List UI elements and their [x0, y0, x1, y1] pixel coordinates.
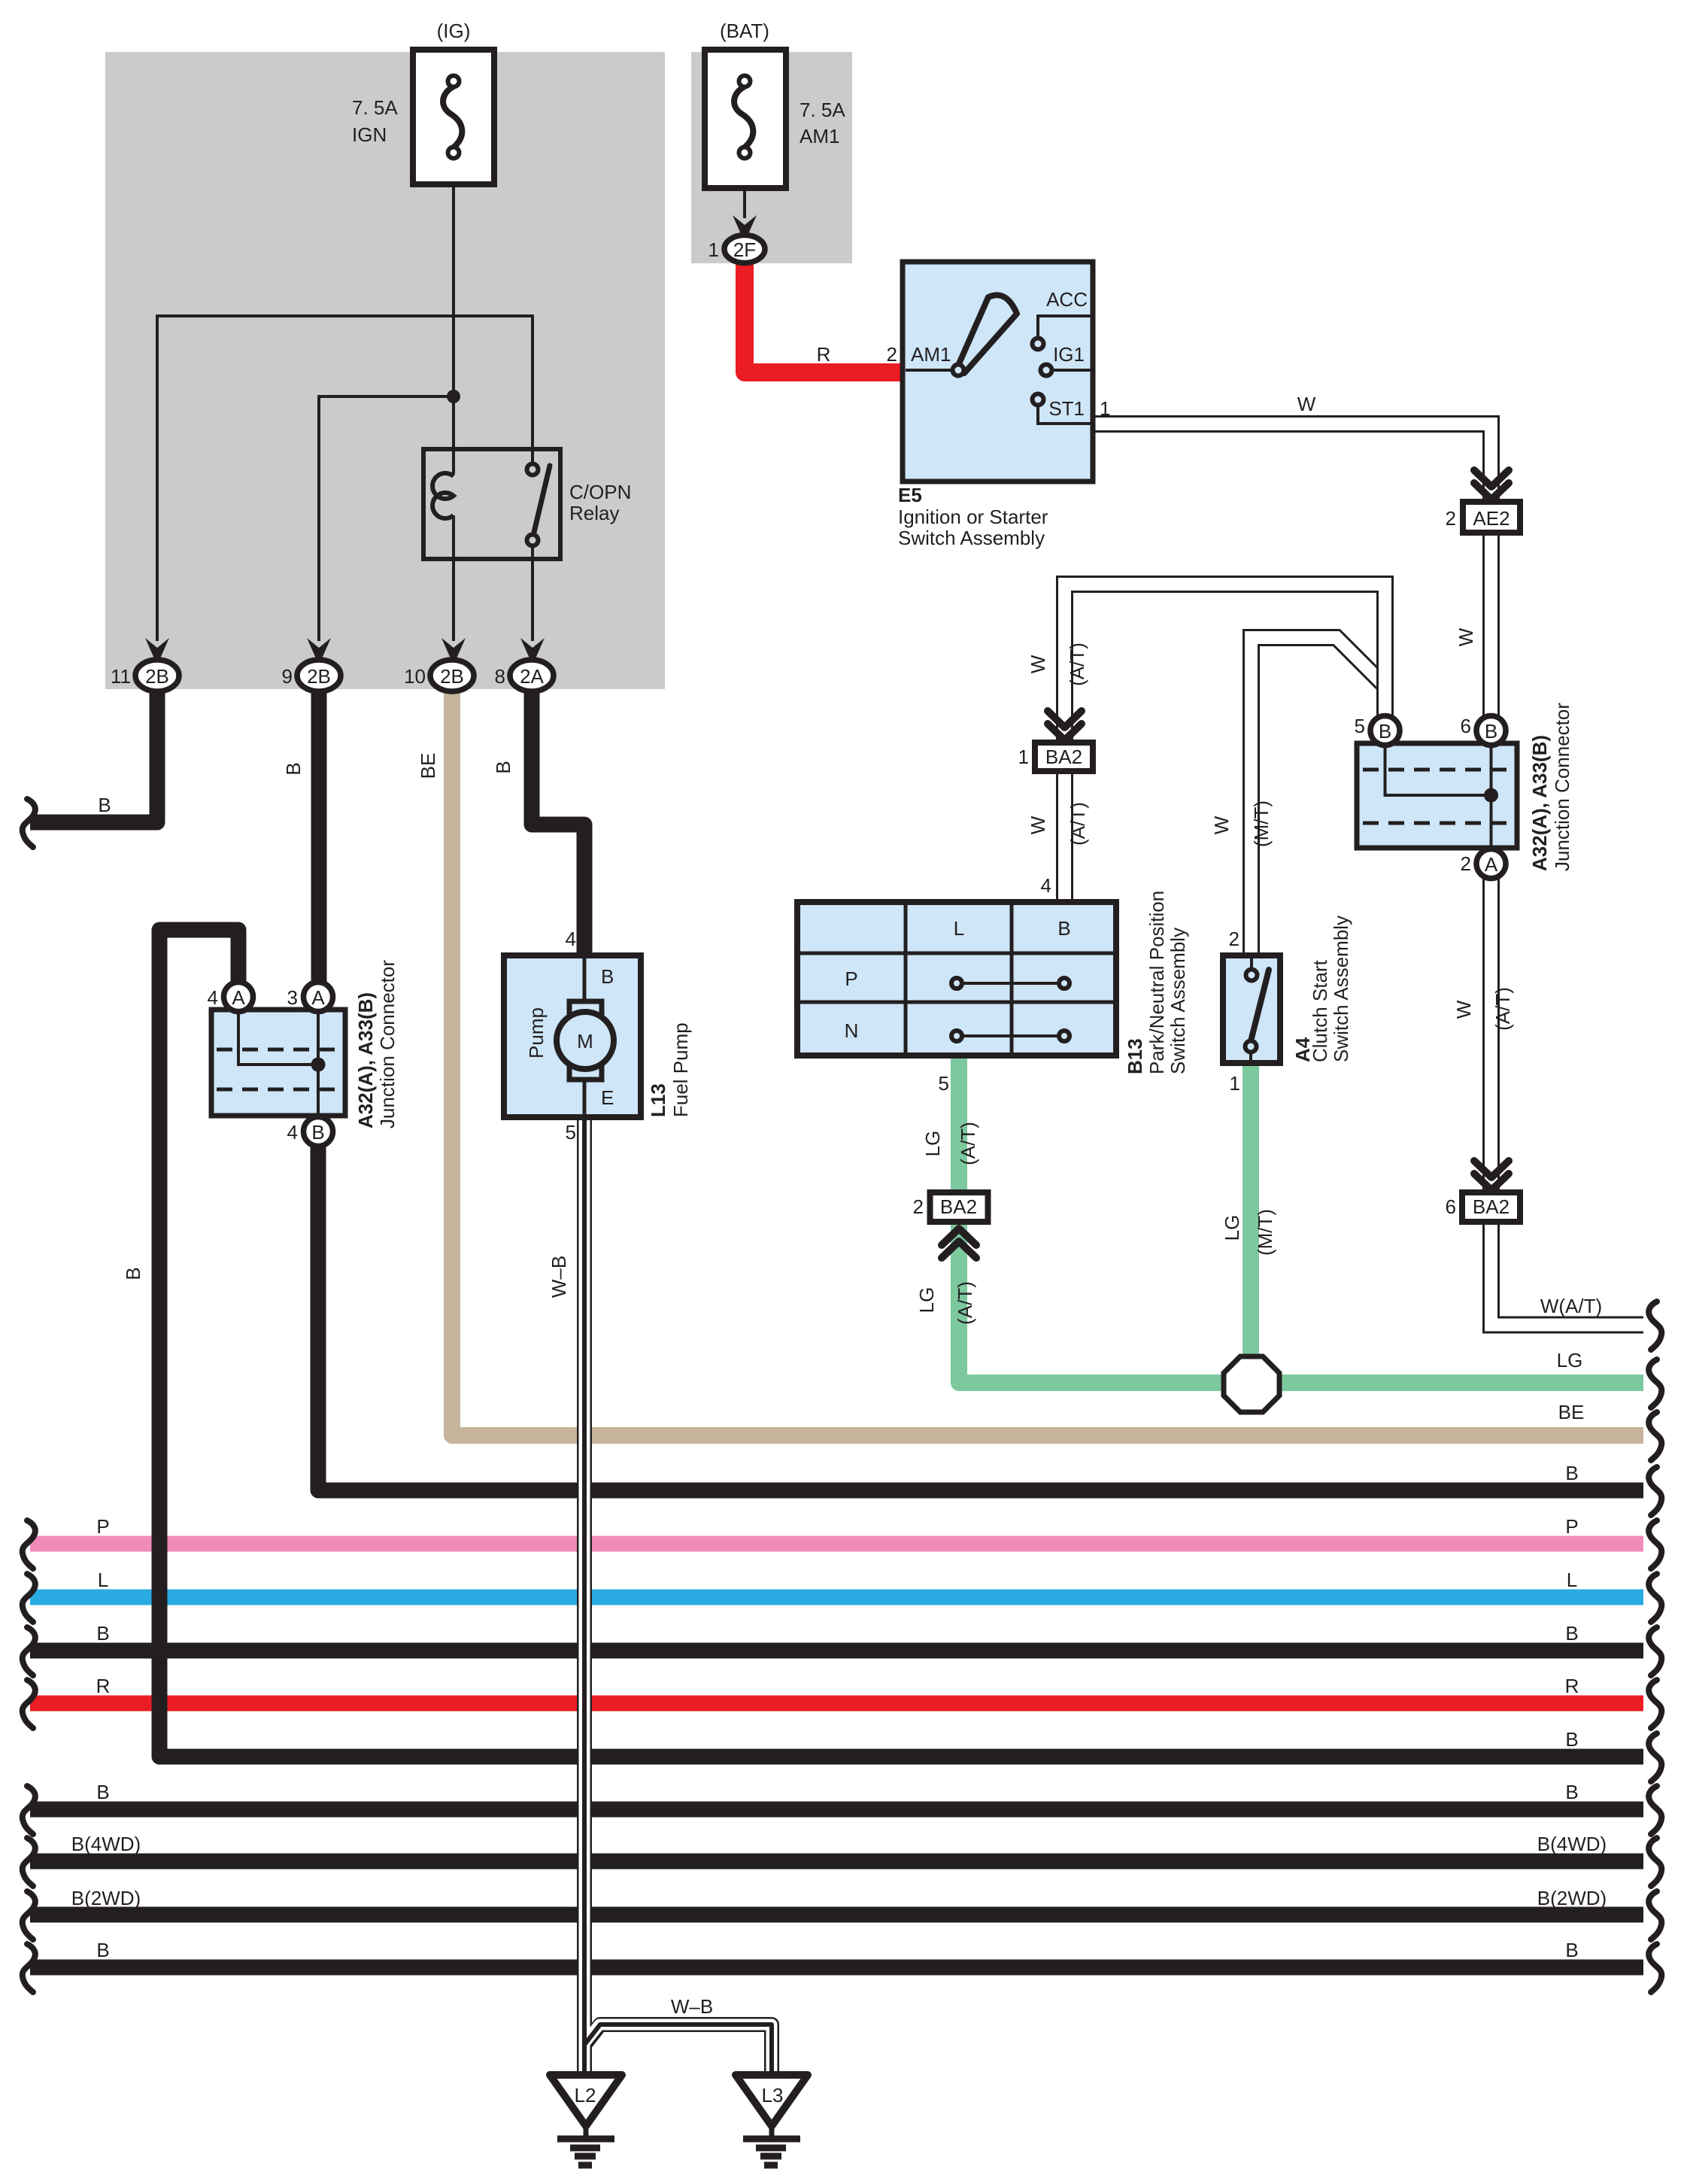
svg-text:W(A/T): W(A/T): [1540, 1295, 1602, 1317]
junction (left) internal through wire: [317, 1011, 320, 1114]
svg-text:1: 1: [1230, 1072, 1240, 1095]
connector oval 2A pin 8: [510, 660, 554, 691]
svg-text:2B: 2B: [440, 665, 464, 688]
svg-text:B: B: [96, 1781, 109, 1803]
park/neutral switch B13 box: [797, 902, 1116, 1056]
wire: thick black B from 2A pin 8 with jog to fuel pump pin 4: [532, 686, 584, 958]
junction connector A32/A33 (left) box: [211, 1010, 345, 1116]
wire: thick black B from 2B pin 9 down to junction connector circle A3: [311, 686, 327, 987]
svg-text:BA2: BA2: [1473, 1195, 1510, 1218]
wire: white W from ignition switch ST1 to AE2: [1091, 424, 1491, 504]
junction (left) internal wire A4 branch: [238, 1011, 318, 1065]
chevron arrow into BA2-2 (pointing up): [942, 1229, 976, 1258]
harness curl left, B(4WD) row: [23, 1838, 35, 1886]
svg-text:IGN: IGN: [352, 123, 387, 146]
A4 internal leads: [1251, 958, 1252, 1061]
harness curl right, B row 2194: [1649, 1627, 1661, 1675]
junction (right) dashed bus lines: [1363, 770, 1512, 823]
relay switch contacts: [527, 464, 539, 475]
E5 AM1 pivot contact: [953, 365, 964, 376]
svg-text:2: 2: [913, 1195, 924, 1218]
octagon junction joint: [1224, 1356, 1279, 1412]
wire: vertical drop to connector 2B pin 11: [156, 314, 159, 641]
svg-text:B(4WD): B(4WD): [1537, 1833, 1607, 1855]
clutch start switch A4 box: [1223, 955, 1280, 1063]
svg-text:(A/T): (A/T): [957, 1122, 979, 1165]
junction (right) internal node dot: [1484, 788, 1498, 803]
wire: thick black B from junction circle B4 down and right (row 4): [318, 1142, 1643, 1490]
svg-text:BE: BE: [417, 753, 439, 779]
svg-text:W: W: [1027, 816, 1049, 834]
connector oval 2F pin 1: [724, 235, 765, 263]
svg-text:2: 2: [1446, 507, 1456, 530]
junction (left) dashed bus lines: [217, 1049, 340, 1089]
B13 N-row contact pair: [962, 1034, 1059, 1037]
svg-text:R: R: [1565, 1675, 1579, 1697]
svg-text:B(2WD): B(2WD): [1537, 1887, 1607, 1909]
wire: horizontal branch y420 from x209 to relay switch x708: [157, 314, 533, 317]
E5 IG1 contact and lead: [1051, 369, 1091, 372]
svg-text:B: B: [1485, 720, 1497, 743]
svg-text:B: B: [1565, 1622, 1578, 1645]
svg-text:B(2WD): B(2WD): [71, 1887, 141, 1909]
svg-text:A: A: [232, 986, 245, 1009]
wire: relay switch output down to connector 2A pin 8: [531, 544, 534, 641]
wire: thick BE (beige) from 2B pin 10 down and right to edge: [452, 686, 1643, 1435]
svg-text:7. 5A: 7. 5A: [800, 99, 845, 121]
chevron arrow into BA2-6: [1474, 1161, 1509, 1190]
arrow into 2B pin 11: [145, 638, 169, 665]
svg-text:P: P: [96, 1515, 109, 1538]
svg-text:L: L: [954, 917, 964, 940]
svg-text:Junction Connector: Junction Connector: [1551, 703, 1573, 871]
L13 internal leads: [583, 958, 587, 1114]
L13 motor circle: [557, 1012, 614, 1069]
connector BA2-2 box: [930, 1192, 988, 1222]
svg-text:W: W: [1452, 1000, 1475, 1019]
junction (right) internal through wire: [1490, 745, 1493, 846]
svg-text:4: 4: [287, 1121, 298, 1144]
node: junction dot on IG feed: [447, 390, 460, 403]
svg-text:B: B: [96, 1622, 109, 1645]
wire: thick green LG from BA2-2 down and right to edge: [959, 1219, 1643, 1383]
harness curl right, B bottom row: [1649, 1944, 1661, 1992]
relay C/OPN box: [423, 449, 560, 559]
harness curl right, LG row: [1649, 1359, 1661, 1408]
wire: horizontal branch y527 from x424 to junction dot: [319, 395, 454, 398]
svg-text:L13: L13: [647, 1083, 669, 1117]
harness curl left, B(2WD) row: [23, 1891, 35, 1939]
gray panel: battery fuse block (right): [691, 52, 852, 263]
svg-text:Switch Assembly: Switch Assembly: [898, 527, 1045, 549]
fuse 7.5A IGN box: [413, 50, 494, 184]
svg-text:1: 1: [1100, 397, 1110, 420]
svg-text:5: 5: [939, 1072, 949, 1095]
wire: white W (A/T) from BA2-1 up over and down to junction circle B5: [1065, 585, 1385, 746]
svg-text:4: 4: [208, 986, 218, 1009]
E5 AM1 feed line: [906, 369, 952, 372]
wire: white W (M/T) from clutch switch A4 pin 2 merging to junction circle B5: [1252, 638, 1383, 959]
ignition switch E5 box: [903, 262, 1093, 481]
svg-text:P: P: [845, 967, 857, 990]
svg-text:(A/T): (A/T): [1067, 802, 1089, 846]
svg-text:B: B: [98, 794, 111, 816]
svg-text:B: B: [1379, 720, 1391, 743]
svg-text:R: R: [817, 343, 831, 366]
svg-text:10: 10: [404, 665, 426, 688]
relay switch lever: [533, 466, 550, 539]
svg-text:(IG): (IG): [437, 20, 471, 42]
harness curl right, R row: [1649, 1680, 1661, 1728]
junction (right) internal wire B5 branch: [1385, 745, 1491, 795]
svg-text:2: 2: [1229, 928, 1239, 950]
svg-text:LG: LG: [1221, 1215, 1243, 1241]
A4 contacts: [1246, 970, 1258, 981]
harness curl right, BE row: [1649, 1412, 1661, 1460]
svg-text:ACC: ACC: [1046, 288, 1088, 311]
junction (left) terminal circle 3 A: [304, 983, 333, 1012]
harness curl left, B row: [23, 1627, 35, 1675]
wire: row B black bottom: [30, 1960, 1643, 1976]
svg-text:B: B: [601, 965, 614, 988]
junction (left) terminal circle 4 B: [304, 1117, 333, 1147]
junction (left) internal node dot: [311, 1058, 326, 1072]
harness curl left, L row: [23, 1574, 35, 1622]
svg-text:8: 8: [495, 665, 505, 688]
svg-text:6: 6: [1446, 1195, 1456, 1218]
svg-text:1: 1: [708, 238, 719, 261]
svg-text:B: B: [122, 1267, 144, 1280]
wire: white W from junction circle A2 down to BA2-6: [1482, 865, 1500, 1195]
svg-text:4: 4: [1041, 874, 1051, 897]
svg-text:W: W: [1027, 655, 1049, 673]
svg-text:9: 9: [282, 665, 293, 688]
L13 motor brush blocks: [569, 1001, 602, 1017]
ground L3: [736, 2075, 808, 2126]
svg-text:2F: 2F: [733, 238, 756, 261]
wire: white W(A/T) from BA2-6 down then right to edge: [1491, 1219, 1644, 1325]
harness curl left, B bottom row: [23, 1944, 35, 1992]
svg-text:L: L: [1567, 1569, 1577, 1591]
svg-text:BA2: BA2: [1045, 746, 1082, 768]
svg-text:Switch Assembly: Switch Assembly: [1167, 928, 1189, 1074]
svg-text:B: B: [1565, 1728, 1578, 1751]
svg-text:LG: LG: [915, 1287, 938, 1314]
arrow into 2B pin 9: [307, 638, 331, 665]
connector oval 2B pin 10: [430, 660, 474, 691]
wire: BAT fuse output down to 2F connector: [743, 150, 746, 218]
svg-text:Ignition or Starter: Ignition or Starter: [898, 506, 1048, 528]
chevron arrow into BA2-1: [1048, 711, 1082, 740]
wire: vertical from branch into relay switch: [531, 314, 534, 466]
E5 ACC contact and lead: [1038, 316, 1091, 339]
junction connector A32/A33 (right) box: [1357, 743, 1517, 848]
wire: thin black from IG fuse down to relay coil: [452, 182, 455, 474]
wire: row B black lower: [30, 1802, 1643, 1818]
harness curl right, L row: [1649, 1574, 1661, 1622]
svg-text:Relay: Relay: [569, 502, 619, 524]
B13 column dividers: [906, 902, 1012, 1056]
svg-text:A32(A), A33(B): A32(A), A33(B): [354, 992, 377, 1128]
connector BA2-6 box: [1462, 1192, 1520, 1222]
svg-text:B: B: [311, 1121, 324, 1144]
svg-text:Park/Neutral Position: Park/Neutral Position: [1145, 891, 1168, 1074]
wire: row B(4WD) black: [30, 1854, 1643, 1870]
svg-text:ST1: ST1: [1048, 397, 1085, 420]
wire: thick black B elbow from left junction connector circle A4 over colored rows: [159, 930, 1643, 1757]
E5 ST1 contact and lead: [1038, 405, 1091, 424]
wire: thick black B from 2B pin 11 to left edge curl: [30, 686, 157, 822]
wire: W-B white/black stripe from fuel pump E to grounds: [584, 1116, 772, 2075]
svg-text:B: B: [492, 761, 514, 773]
svg-text:(BAT): (BAT): [720, 20, 769, 42]
svg-text:AM1: AM1: [800, 125, 839, 147]
svg-text:B(4WD): B(4WD): [71, 1833, 141, 1855]
wire: row L blue: [30, 1590, 1643, 1605]
svg-text:E5: E5: [898, 484, 922, 506]
svg-text:Pump: Pump: [525, 1007, 548, 1059]
fuel pump L13 box: [504, 955, 641, 1117]
wire: thick red R from 2F to ignition switch AM1: [745, 257, 904, 372]
svg-text:5: 5: [566, 1121, 576, 1144]
harness curl right, P row: [1649, 1520, 1661, 1569]
svg-text:B: B: [282, 762, 305, 775]
junction (right) terminal circle 5 B: [1370, 716, 1400, 746]
fuse 7.5A AM1 box: [705, 50, 786, 188]
wire: row B(2WD) black: [30, 1907, 1643, 1923]
junction (right) terminal circle 6 B: [1476, 716, 1506, 746]
svg-text:AM1: AM1: [911, 343, 951, 366]
svg-text:11: 11: [111, 665, 131, 688]
svg-text:W: W: [1210, 816, 1233, 834]
svg-text:7. 5A: 7. 5A: [352, 96, 398, 119]
svg-text:R: R: [96, 1675, 111, 1697]
chevron arrow into AE2: [1474, 470, 1509, 500]
svg-text:5: 5: [1355, 715, 1365, 737]
harness curl left, B row 2405: [23, 1786, 35, 1834]
ground L2: [550, 2075, 622, 2126]
svg-text:6: 6: [1461, 715, 1471, 737]
connector oval 2B pin 11: [135, 660, 179, 691]
svg-text:(A/T): (A/T): [954, 1281, 976, 1325]
svg-text:4: 4: [566, 928, 576, 950]
svg-text:B13: B13: [1124, 1038, 1146, 1074]
svg-text:P: P: [1565, 1515, 1578, 1538]
arrow into 2B pin 10: [441, 638, 466, 665]
arrow into 2A pin 8: [520, 638, 545, 665]
svg-text:3: 3: [287, 986, 298, 1009]
harness curl right, B row 2335: [1649, 1733, 1661, 1782]
svg-text:C/OPN: C/OPN: [569, 481, 631, 503]
svg-text:W–B: W–B: [548, 1256, 570, 1298]
E5 rotor lever wedge: [957, 295, 1017, 373]
connector oval 2B pin 9: [297, 660, 341, 691]
harness curl right, W(A/T) row: [1649, 1302, 1661, 1350]
junction (right) terminal circle 2 A: [1476, 849, 1506, 879]
svg-text:2B: 2B: [307, 665, 331, 688]
svg-text:2A: 2A: [520, 665, 544, 688]
harness curl right, B(2WD) row: [1649, 1891, 1661, 1939]
harness curl left, B row y1093: [23, 799, 35, 847]
A4 switch lever: [1251, 970, 1269, 1041]
svg-text:A: A: [311, 986, 325, 1009]
junction (left) terminal circle 4 A: [224, 983, 253, 1012]
wire: relay coil output down to connector 2B pin 10: [452, 515, 455, 641]
svg-text:2: 2: [887, 343, 897, 366]
svg-text:BE: BE: [1558, 1401, 1585, 1423]
svg-text:B: B: [1565, 1939, 1578, 1961]
svg-text:(M/T): (M/T): [1254, 1209, 1276, 1256]
wire: row B black: [30, 1643, 1643, 1659]
svg-text:LG: LG: [1557, 1349, 1583, 1371]
svg-text:B: B: [1565, 1781, 1578, 1803]
svg-text:BA2: BA2: [940, 1195, 977, 1218]
svg-text:B: B: [1565, 1462, 1578, 1484]
svg-text:A: A: [1485, 853, 1498, 876]
connector BA2-1 box: [1035, 743, 1093, 771]
svg-text:W–B: W–B: [671, 1995, 713, 2018]
svg-text:L2: L2: [575, 2084, 596, 2107]
svg-text:(A/T): (A/T): [1066, 642, 1088, 686]
svg-text:Clutch Start: Clutch Start: [1309, 959, 1331, 1062]
wire: row R red: [30, 1696, 1643, 1712]
connector AE2 box: [1463, 502, 1520, 533]
wire: green LG from B13 pin 5 to BA2-2: [951, 1053, 967, 1195]
relay coil: [432, 473, 454, 518]
harness curl right, B row 1981: [1649, 1467, 1661, 1515]
svg-text:Switch Assembly: Switch Assembly: [1330, 916, 1352, 1062]
svg-text:LG: LG: [921, 1131, 944, 1157]
wire: row P pink: [30, 1536, 1643, 1552]
svg-text:B: B: [96, 1939, 109, 1961]
svg-text:2: 2: [1461, 852, 1471, 875]
B13 P-row contact pair: [962, 982, 1059, 985]
harness curl right, B(4WD) row: [1649, 1838, 1661, 1886]
wire: green LG from clutch switch A4 pin 1 down to octagon joint: [1243, 1061, 1259, 1384]
svg-text:M: M: [577, 1030, 593, 1053]
svg-text:E: E: [601, 1086, 614, 1109]
wire: vertical drop to connector 2B pin 9: [317, 395, 320, 641]
svg-text:A32(A), A33(B): A32(A), A33(B): [1528, 735, 1551, 871]
svg-text:(A/T): (A/T): [1491, 987, 1514, 1031]
svg-text:W: W: [1297, 393, 1316, 415]
B13 row dividers: [797, 953, 1116, 1002]
svg-text:(M/T): (M/T): [1250, 800, 1273, 847]
harness curl left, R row: [23, 1680, 35, 1728]
svg-text:N: N: [845, 1019, 859, 1042]
svg-text:2B: 2B: [145, 665, 169, 688]
wire: white W (A/T) from BA2-1 down to B13 pin 4: [1056, 767, 1073, 905]
harness curl left, P row: [23, 1520, 35, 1569]
svg-text:AE2: AE2: [1473, 507, 1510, 530]
fuse AM1 element: [734, 87, 753, 147]
svg-text:IG1: IG1: [1053, 343, 1085, 366]
fuse IGN element: [443, 87, 462, 147]
svg-text:Junction Connector: Junction Connector: [376, 960, 399, 1128]
svg-text:Fuel Pump: Fuel Pump: [669, 1022, 692, 1117]
gray panel: instrument panel junction block (left): [105, 52, 665, 689]
harness curl right, B row 2405: [1649, 1786, 1661, 1834]
arrow into 2F pin 1: [733, 215, 757, 242]
svg-text:W: W: [1455, 627, 1477, 646]
svg-text:1: 1: [1018, 746, 1029, 768]
wire: white W from AE2 down to junction circle B6: [1482, 531, 1500, 718]
svg-text:L3: L3: [762, 2084, 784, 2107]
svg-text:B: B: [1057, 917, 1070, 940]
svg-text:L: L: [98, 1569, 108, 1591]
